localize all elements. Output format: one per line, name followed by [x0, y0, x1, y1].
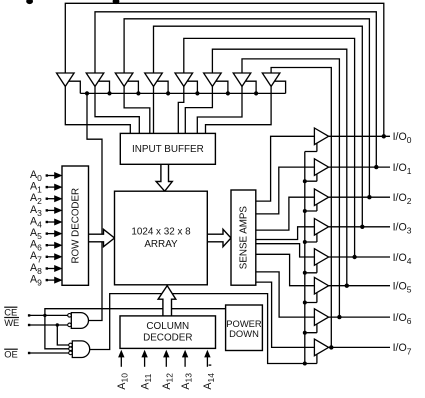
- wire output-enable bus vertical: [304, 152, 306, 364]
- junction: [254, 91, 258, 95]
- output buffer triangle B4 (I/O3): [314, 219, 328, 236]
- wire SENSE AMPS output bit 4 to output buffer B5: [256, 244, 315, 257]
- wire T6 output to INPUT BUFFER: [185, 86, 212, 133]
- wire output buffer B5 to I/O4 pin: [329, 256, 390, 258]
- wire SENSE AMPS output bit 7 to output buffer B8: [256, 282, 315, 347]
- block POWER DOWN: [226, 305, 263, 351]
- wire I/O4 feedback loop: top bus line 5 from input buffer T5 to right vertical down to I/O4 line: [184, 38, 355, 257]
- input buffer triangle T1: [57, 73, 75, 86]
- junction CE: [43, 314, 46, 317]
- junction enable bus: [303, 301, 307, 305]
- wire A14 tick: [209, 364, 212, 366]
- wire WE branch to OE gate: [57, 325, 68, 345]
- wire T6 enable stub: [216, 81, 228, 93]
- wire CE branch to POWER DOWN: [45, 309, 226, 316]
- wire T4 output to INPUT BUFFER: [153, 86, 155, 133]
- svg-text:INPUT BUFFER: INPUT BUFFER: [132, 144, 204, 155]
- wire B7 enable stub: [305, 324, 317, 333]
- bus arrow ROW DECODER to ARRAY: [89, 229, 115, 246]
- block ROW DECODER: [62, 166, 89, 285]
- wire T2 enable stub: [98, 81, 109, 93]
- input buffer triangle T6: [204, 73, 222, 86]
- svg-text:OE: OE: [4, 348, 18, 359]
- cropped text remnant blob right: [113, 0, 120, 4]
- wire A11 bottom input arrow: [144, 357, 146, 367]
- junction: [85, 91, 89, 95]
- wire I/O3 feedback loop: top bus line 4 from input buffer T4 to right vertical down to I/O3 line: [154, 26, 363, 227]
- input buffer triangle T3: [115, 73, 133, 86]
- junction enable bus: [303, 209, 307, 213]
- wire A12 bottom input arrow: [165, 357, 167, 367]
- junction: [107, 91, 111, 95]
- junction enable bus: [303, 362, 307, 366]
- wire T1 enable stub: [69, 81, 81, 93]
- block SENSE AMPS: [231, 190, 256, 285]
- junction: [166, 91, 170, 95]
- junction I/O0: [382, 134, 386, 138]
- wire B4 enable stub: [305, 234, 317, 242]
- wire A2 input arrow: [46, 198, 55, 200]
- wire B2 enable stub: [305, 174, 317, 181]
- wire A9 input arrow: [46, 279, 55, 281]
- wire output buffer B4 to I/O3 pin: [329, 226, 390, 228]
- wire T1 output to INPUT BUFFER: [65, 86, 130, 133]
- svg-text:WE: WE: [4, 317, 19, 328]
- wire output buffer B7 to I/O6 pin: [329, 316, 390, 318]
- wire SENSE AMPS output bit 5 to output buffer B6: [256, 254, 315, 285]
- wire output buffer B1 to I/O0 pin: [329, 135, 390, 137]
- svg-text:1024 x 32 x 8: 1024 x 32 x 8: [131, 226, 191, 237]
- output buffer triangle B3 (I/O2): [314, 189, 328, 206]
- input buffer triangle T2: [86, 73, 104, 86]
- junction enable bus: [303, 331, 307, 335]
- wire T7 output to INPUT BUFFER: [197, 86, 242, 133]
- wire OE input line: [29, 352, 69, 354]
- wire WE input line: [29, 324, 68, 326]
- wire T7 enable stub: [245, 81, 256, 93]
- wire T4 enable stub: [157, 81, 168, 93]
- wire B3 enable stub: [305, 204, 317, 211]
- output buffer triangle B2 (I/O1): [314, 159, 328, 176]
- junction enable bus: [303, 179, 307, 183]
- junction enable bus: [303, 240, 307, 244]
- wire I/O5 feedback loop: top bus line 6 from input buffer T6 to right vertical down to I/O5 line: [212, 49, 346, 286]
- wire A4 input arrow: [46, 221, 55, 223]
- svg-text:ROW DECODER: ROW DECODER: [71, 188, 82, 264]
- wire A13 bottom input arrow: [184, 357, 186, 367]
- wire T5 enable stub: [187, 81, 197, 93]
- junction I/O1: [374, 165, 378, 169]
- wire T8 enable stub: [274, 81, 285, 93]
- junction I/O4: [352, 255, 356, 259]
- junction: [136, 91, 140, 95]
- wire T3 output to INPUT BUFFER: [124, 86, 150, 133]
- wire I/O7 feedback loop: top bus line 8 from input buffer T8 to right vertical down to I/O7 line: [271, 68, 331, 348]
- wire A6 input arrow: [46, 244, 55, 246]
- output buffer triangle B5 (I/O4): [314, 249, 328, 266]
- wire SENSE AMPS output bit 2 to output buffer B3: [256, 197, 315, 230]
- bus arrow COLUMN DECODER to ARRAY: [158, 286, 176, 316]
- block COLUMN DECODER: [120, 316, 216, 349]
- bus arrow INPUT BUFFER to ARRAY: [156, 164, 172, 191]
- junction I/O7: [329, 345, 333, 349]
- junction enable bus: [303, 271, 307, 275]
- junction I/O2: [367, 195, 371, 199]
- bus arrow ARRAY to SENSE AMPS: [207, 229, 231, 246]
- wire A1 input arrow: [46, 186, 55, 188]
- wire I/O6 feedback loop: top bus line 7 from input buffer T7 to right vertical down to I/O6 line: [242, 59, 339, 317]
- wire B6 enable stub: [305, 293, 317, 303]
- input buffer triangle T5: [175, 73, 193, 86]
- wire I/O2 feedback loop: top bus line 3 from input buffer T3 to right vertical down to I/O2 line: [124, 19, 369, 197]
- output buffer triangle B8 (I/O7): [314, 339, 328, 356]
- wire B1 enable stub: [305, 143, 317, 151]
- wire OE gate output to output-enable bus: [90, 294, 305, 364]
- svg-text:SENSE AMPS: SENSE AMPS: [239, 206, 250, 270]
- wire write-enable branch from top enable bus down to CE/WE gate output: [87, 93, 102, 320]
- wire SENSE AMPS output bit 1 to output buffer B2: [256, 167, 315, 214]
- cropped text remnant blob left: [26, 0, 33, 4]
- wire T5 output to INPUT BUFFER: [178, 86, 184, 133]
- wire T2 output to INPUT BUFFER: [95, 86, 139, 133]
- wire output buffer B2 to I/O1 pin: [329, 166, 390, 168]
- wire A5 input arrow: [46, 233, 55, 235]
- block 1024x32x8 ARRAY: [115, 191, 208, 285]
- wire input-triangle enable bus: [80, 92, 285, 94]
- svg-text:COLUMN: COLUMN: [146, 321, 189, 332]
- wire A10 bottom input arrow: [120, 357, 122, 367]
- wire I/O0 feedback loop: top bus line 1 from input buffer T1 to right vertical down to I/O0 line: [65, 3, 384, 136]
- wire A7 input arrow: [46, 256, 55, 258]
- wire SENSE AMPS output bit 3 to output buffer B4: [256, 227, 315, 240]
- wire T8 output to INPUT BUFFER: [206, 86, 272, 133]
- wire A14 bottom input arrow: [206, 357, 208, 367]
- wire A8 input arrow: [46, 268, 55, 270]
- input buffer triangle T8: [262, 73, 280, 86]
- input buffer triangle T7: [233, 73, 251, 86]
- input buffer triangle T4: [145, 73, 163, 86]
- wire T3 enable stub: [127, 81, 138, 93]
- junction: [195, 91, 199, 95]
- wire CE input line: [29, 314, 68, 316]
- svg-text:DOWN: DOWN: [229, 328, 259, 339]
- junction WE: [56, 323, 59, 326]
- wire SENSE AMPS output bit 6 to output buffer B7: [256, 272, 315, 317]
- svg-text:DECODER: DECODER: [143, 333, 192, 344]
- wire output buffer B8 to I/O7 pin: [329, 346, 390, 348]
- gate U1 (CE*WE nand-style and gate): [71, 313, 88, 329]
- wire A3 input arrow: [46, 209, 55, 211]
- junction I/O3: [360, 225, 364, 229]
- output buffer triangle B1 (I/O0): [314, 128, 328, 145]
- junction: [226, 91, 230, 95]
- junction I/O6: [337, 315, 341, 319]
- gate U2 (CE*WE*OE and gate): [72, 341, 89, 358]
- output buffer triangle B6 (I/O5): [314, 277, 328, 294]
- wire I/O1 feedback loop: top bus line 2 from input buffer T2 to right vertical down to I/O1 line: [95, 12, 376, 167]
- wire A0 input arrow: [46, 175, 55, 177]
- output buffer triangle B7 (I/O6): [314, 309, 328, 326]
- block INPUT BUFFER: [120, 133, 215, 164]
- svg-text:ARRAY: ARRAY: [144, 239, 178, 250]
- wire output buffer B6 to I/O5 pin: [329, 285, 390, 287]
- wire B5 enable stub: [305, 264, 317, 273]
- wire output buffer B3 to I/O2 pin: [329, 196, 390, 198]
- wire CE branch to OE gate: [45, 315, 69, 348]
- wire SENSE AMPS output bit 0 to output buffer B1: [256, 136, 315, 201]
- junction I/O5: [345, 284, 349, 288]
- wire B8 enable stub: [305, 354, 317, 363]
